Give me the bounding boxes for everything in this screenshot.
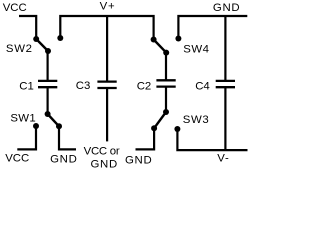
wire SW3 right contact to V- rail — [177, 129, 247, 150]
capacitor C3 — [97, 80, 116, 82]
switch SW4 right contact — [175, 36, 181, 42]
wire GND rail — [178, 16, 247, 39]
svg-text:SW1: SW1 — [10, 113, 36, 125]
wire SW3 left contact to GND stub — [136, 128, 155, 149]
svg-text:VCC: VCC — [5, 153, 29, 165]
switch SW4 pole — [163, 50, 169, 56]
wire C3 bottom lead — [106, 88, 108, 141]
capacitor C2 — [156, 79, 175, 81]
wire C2 bottom lead — [165, 87, 167, 112]
wire SW1 right contact to GND stub — [59, 126, 76, 149]
svg-text:VCC or: VCC or — [84, 146, 120, 158]
switch SW2 left contact — [33, 36, 39, 42]
switch SW1 arm — [48, 114, 59, 126]
svg-text:V+: V+ — [100, 0, 116, 12]
wire C4 bottom lead — [224, 87, 226, 150]
wire SW1 left contact to VCC stub — [17, 126, 36, 149]
switch SW3 left contact — [151, 125, 157, 131]
wire C3 top lead — [106, 16, 108, 81]
switch SW1 right contact — [56, 123, 62, 129]
svg-text:GND: GND — [213, 2, 240, 14]
switch SW2 pole — [45, 48, 51, 54]
wire V+ rail — [60, 16, 153, 40]
svg-text:SW4: SW4 — [183, 44, 209, 56]
svg-text:C1: C1 — [19, 80, 34, 92]
switch SW4 arm — [154, 40, 167, 53]
svg-text:SW2: SW2 — [6, 43, 33, 55]
wire SW4 pole to C2 — [165, 53, 167, 81]
svg-text:C4: C4 — [195, 81, 210, 93]
svg-text:SW3: SW3 — [183, 114, 210, 126]
switch SW2 right contact — [57, 35, 63, 41]
svg-text:GND: GND — [91, 158, 118, 170]
wire VCC to SW2 left contact — [19, 16, 36, 39]
switch SW1 pole — [45, 111, 51, 117]
wire C4 top lead — [224, 16, 226, 81]
svg-text:C3: C3 — [76, 80, 91, 92]
switch SW3 right contact — [174, 126, 180, 132]
svg-text:V-: V- — [217, 152, 229, 164]
svg-text:VCC: VCC — [3, 2, 27, 14]
svg-text:C2: C2 — [137, 81, 152, 93]
capacitor C1 — [38, 80, 57, 82]
wire SW2 pole to C1 — [46, 51, 48, 81]
switch SW1 left contact — [33, 123, 39, 129]
switch SW3 pole — [163, 109, 169, 115]
switch SW4 left contact — [151, 37, 157, 43]
wire C1 bottom lead — [46, 87, 48, 114]
capacitor C4 — [216, 80, 235, 82]
svg-text:GND: GND — [50, 153, 77, 165]
switch SW3 arm — [154, 112, 166, 128]
svg-text:GND: GND — [125, 154, 152, 166]
switch SW2 arm — [36, 39, 48, 51]
